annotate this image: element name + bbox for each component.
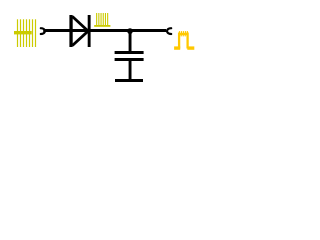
diode D1 anode bar (69, 15, 72, 47)
pulse baseline left (174, 46, 180, 49)
wire junction down to capacitor (129, 31, 132, 51)
pulse right edge (186, 33, 188, 49)
node demodulated output pulse symbol (174, 31, 194, 48)
terminal T2 (output) (167, 28, 171, 34)
pulse baseline right (187, 46, 194, 49)
capacitor C1 bottom plate (115, 58, 144, 61)
pulse ripple top (179, 31, 188, 36)
diode D1 triangle upper edge (72, 17, 88, 32)
node RF-in carrier waveform symbol (14, 19, 36, 47)
diode D1 triangle lower edge (72, 31, 88, 45)
wire through diode (70, 29, 91, 32)
wire diode cathode to output terminal (91, 29, 167, 32)
junction node dot (127, 28, 133, 34)
capacitor C1 top plate (115, 51, 144, 54)
terminal T1 (input) (41, 28, 45, 34)
wire input to diode anode (43, 29, 69, 32)
diode D1 cathode bar (88, 15, 91, 47)
pulse left edge (178, 33, 180, 49)
node rectified waveform symbol (94, 13, 110, 27)
ground bar (115, 79, 143, 82)
wire capacitor to ground (129, 61, 132, 79)
